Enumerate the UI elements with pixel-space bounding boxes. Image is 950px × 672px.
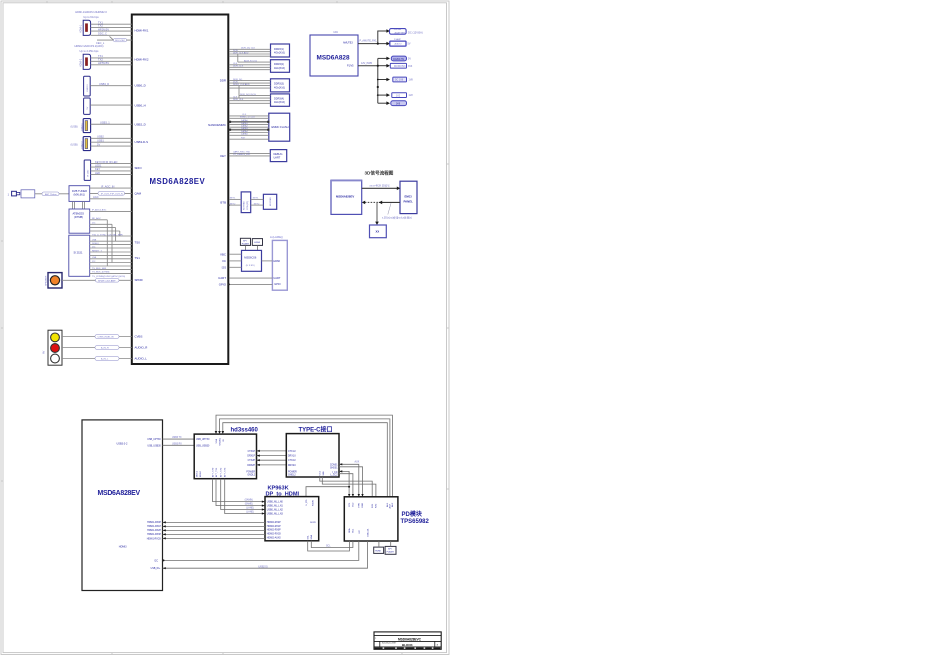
- svg-text:DRX2U: DRX2U: [288, 465, 296, 467]
- svg-text:I2C: I2C: [92, 261, 96, 263]
- svg-text:CC1: CC1: [349, 502, 351, 507]
- svg-text:DRX1P: DRX1P: [247, 456, 255, 458]
- svg-text:USB3 RX: USB3 RX: [172, 443, 182, 445]
- note title block: [374, 632, 441, 649]
- svg-text:P_AMUTE_RXL: P_AMUTE_RXL: [360, 40, 378, 43]
- wire J1 to U1 pins: [91, 24, 132, 40]
- svg-text:MSD6A828EV: MSD6A828EV: [150, 177, 206, 186]
- svg-text:DDR3(3): DDR3(3): [274, 83, 284, 86]
- component FB2 panel box: [400, 181, 417, 213]
- svg-text:GNDBL: GNDBL: [220, 437, 222, 445]
- svg-text:RF_AGC: RF_AGC: [92, 217, 101, 220]
- component U13 SPI FLASH small: [240, 238, 250, 245]
- wire U23 I2C bus to U24: [308, 541, 353, 551]
- svg-text:HDMI1-RX0P: HDMI1-RX0P: [147, 522, 161, 524]
- svg-text:TS0_D_SYNC_CLK_VAL_ERR: TS0_D_SYNC_CLK_VAL_ERR: [92, 233, 123, 236]
- svg-text:EMMC_D_CLK: EMMC_D_CLK: [240, 117, 255, 119]
- svg-text:3V3: 3V3: [408, 65, 413, 68]
- wire U21 bottom to U24 elbows: [213, 479, 262, 514]
- svg-text:HDMI1-RX3P: HDMI1-RX3P: [147, 534, 161, 536]
- U24 misc pin names: [306, 499, 317, 539]
- node flow note leader line: [388, 203, 391, 214]
- svg-text:MSD6A828: MSD6A828: [317, 55, 350, 62]
- svg-text:DC 1V8: DC 1V8: [395, 80, 404, 82]
- svg-text:SDA: SDA: [310, 534, 313, 539]
- svg-text:P1/V5: P1/V5: [347, 65, 354, 68]
- svg-text:HDMI-2: HDMI-2: [80, 58, 83, 67]
- wire J9 CVBS to U1: [62, 337, 132, 359]
- svg-text:12V-5A: 12V-5A: [394, 28, 402, 31]
- wire U3 bus to U1: [90, 211, 132, 266]
- node rail junction dots: [377, 65, 379, 96]
- svg-text:I2C: I2C: [334, 30, 340, 34]
- svg-text:hd3ss460: hd3ss460: [231, 428, 259, 434]
- wire U1 to U5 bus: [229, 49, 271, 62]
- wire U1 to U7 bus: [229, 81, 271, 99]
- svg-text:USB_ID+: USB_ID+: [151, 568, 161, 570]
- svg-text:LNB: LNB: [92, 257, 97, 259]
- svg-text:(MXL661): (MXL661): [74, 192, 86, 196]
- component PSU4 3V3 box: [390, 63, 413, 68]
- svg-text:KP963K: KP963K: [268, 485, 289, 491]
- node U22 right arrows: [339, 463, 342, 472]
- svg-text:DDR_CLK: DDR_CLK: [233, 66, 244, 68]
- component PSU7 0V9 box: [391, 101, 407, 106]
- wire RF to tuner: [35, 193, 69, 195]
- svg-text:HDMI2-AUX0: HDMI2-AUX0: [267, 537, 282, 540]
- wire U22 bottom SBU to U23: [320, 477, 376, 497]
- svg-text:TS_BUS_(DTMB): TS_BUS_(DTMB): [92, 272, 110, 274]
- svg-text:CON(7P): CON(7P): [247, 201, 249, 210]
- svg-text:GNDL2: GNDL2: [288, 475, 296, 477]
- svg-text:IIC: IIC: [222, 259, 226, 263]
- wire U17 AMUTE net: [358, 31, 387, 44]
- svg-text:POWER: POWER: [246, 471, 255, 473]
- note HDMI2 description text: [74, 44, 103, 53]
- node AUDIO_R net label box: [95, 346, 119, 350]
- wire U4 bus to U1: [90, 236, 132, 273]
- svg-text:TS_(DTMB)(DVB/C)(ATSC)(S2/S): TS_(DTMB)(DVB/C)(ATSC)(S2/S): [92, 275, 125, 278]
- svg-text:DC (12V/5A): DC (12V/5A): [408, 31, 423, 35]
- svg-text:SPDIF: SPDIF: [135, 278, 144, 282]
- svg-text:DDC1: DDC1: [197, 470, 199, 477]
- node tuner bus wire labels: [92, 209, 125, 278]
- wire U23 USB_D to U20 long: [163, 541, 368, 568]
- node CC1 junction dot: [348, 486, 350, 488]
- node U7 wire labels: [233, 79, 250, 86]
- svg-text:5V: 5V: [408, 42, 411, 45]
- svg-text:DATA1: DATA1: [241, 122, 249, 125]
- svg-text:FLASH: FLASH: [387, 551, 394, 554]
- svg-text:A_IN_R: A_IN_R: [101, 347, 109, 350]
- node U24 lane labels: [245, 499, 254, 514]
- svg-text:EMCI: EMCI: [405, 194, 412, 198]
- component U23 TPS65982 PD module: [344, 497, 429, 541]
- svg-text:GHD01: GHD01: [330, 467, 338, 469]
- component U22 TYPE-C port: [286, 426, 339, 477]
- node AMUTE junction dot: [377, 43, 379, 45]
- svg-text:SBU: SBU: [323, 471, 325, 476]
- svg-text:SomeName-MST: SomeName-MST: [382, 643, 397, 645]
- svg-text:DC/DC3V3: DC/DC3V3: [394, 66, 406, 68]
- component U2 DVB TUNER MXL661: [69, 186, 90, 202]
- svg-text:DDC_C: DDC_C: [98, 32, 107, 36]
- svg-text:SPI: SPI: [243, 241, 247, 243]
- svg-text:DRX2P: DRX2P: [247, 465, 255, 467]
- svg-text:USB0_ML_LN3: USB0_ML_LN3: [267, 513, 284, 515]
- svg-text:DDR3(2): DDR3(2): [274, 63, 284, 66]
- op-amp U1 MSD6A828EV main chip body: [132, 15, 229, 365]
- svg-text:CTX1U: CTX1U: [288, 451, 296, 453]
- svg-text:USB2.0: USB2.0: [81, 141, 83, 149]
- svg-text:SDA: SDA: [348, 528, 351, 533]
- svg-text:USB0_H: USB0_H: [135, 103, 146, 107]
- node arrow into PSU3: [386, 57, 390, 61]
- svg-text:(SAME): (SAME): [245, 503, 253, 506]
- svg-text:I2C: I2C: [359, 530, 361, 534]
- connector J7 IR-KEY header: [84, 160, 90, 180]
- node CVBS net label box: [95, 335, 119, 339]
- node U12 wire labels: [253, 198, 260, 206]
- svg-text:UART: UART: [273, 276, 280, 280]
- svg-text:TS_BUS_SER: TS_BUS_SER: [92, 268, 107, 270]
- wire U1 to U9 bus: [229, 116, 269, 139]
- svg-text:KEY1: KEY1: [253, 198, 259, 200]
- svg-text:VCA: VCA: [215, 438, 218, 443]
- U22 right pin names: [330, 464, 338, 476]
- svg-text:(USB2 D): (USB2 D): [258, 566, 268, 568]
- wire U1 to U6 bus: [229, 62, 271, 70]
- node U9 wire labels: [240, 114, 255, 139]
- svg-text:5V: 5V: [408, 58, 411, 61]
- svg-text:AUX: AUX: [355, 460, 360, 463]
- svg-text:KEY1: KEY1: [230, 198, 236, 200]
- svg-text:HDMI-RX2: HDMI-RX2: [135, 58, 149, 62]
- node U11 junction dot: [228, 204, 230, 206]
- wire U1 to U9 thick data buses: [229, 122, 268, 130]
- node U11 wire labels: [230, 198, 236, 206]
- svg-text:(DTMB): (DTMB): [74, 215, 83, 219]
- svg-text:HDMI: HDMI: [273, 259, 280, 263]
- svg-text:SDIO: SDIO: [135, 166, 143, 170]
- component PSU2 5V regulator box: [390, 38, 411, 46]
- component U7 DDR3 chip 3: [271, 79, 290, 92]
- component balun box: [21, 190, 35, 198]
- svg-text:AGC: AGC: [93, 195, 99, 199]
- node U5 wire labels: [233, 48, 256, 55]
- wire U22 HPD pair to U23 top: [339, 464, 363, 497]
- svg-text:HDMI3: HDMI3: [119, 546, 127, 549]
- svg-text:BLOCK: BLOCK: [402, 643, 413, 647]
- connector J5 USB3 yellow: [71, 119, 91, 133]
- svg-text:KEY0 IR IR IR LED: KEY0 IR IR IR LED: [95, 160, 117, 164]
- svg-text:FLASH: FLASH: [242, 242, 249, 245]
- component U21 hd3ss460 mux: [194, 428, 258, 479]
- svg-text:GNDL2: GNDL2: [247, 475, 255, 477]
- svg-text:MSD6A828EV: MSD6A828EV: [336, 195, 354, 199]
- svg-text:I2C: I2C: [92, 223, 96, 225]
- svg-text:NAND/EMMC: NAND/EMMC: [208, 123, 226, 127]
- wire U23 to U26 stub: [390, 541, 392, 546]
- svg-text:RESET_T: RESET_T: [92, 250, 103, 252]
- svg-text:5V: 5V: [97, 142, 100, 146]
- U1 right pin labels: [208, 78, 227, 286]
- svg-text:GPIO: GPIO: [274, 282, 281, 286]
- node IF net label box: [98, 192, 125, 196]
- svg-text:SPDIF_OUT AMP: SPDIF_OUT AMP: [98, 279, 116, 282]
- svg-text:1V8: 1V8: [409, 79, 414, 82]
- component PSU1 adapter box: [390, 28, 423, 35]
- svg-text:(USB): (USB): [71, 124, 78, 128]
- svg-text:USB3.1: USB3.1: [81, 123, 83, 131]
- component U6 DDR3 chip 2: [271, 60, 290, 73]
- svg-text:DDR3(4): DDR3(4): [274, 97, 284, 100]
- svg-text:(SAMN): (SAMN): [245, 499, 253, 502]
- node U21 lane arrows: [257, 450, 260, 466]
- wire U20 to U24 HDMI lanes: [163, 522, 266, 538]
- node arrow into PSU4: [386, 64, 390, 68]
- svg-text:USB0_D: USB0_D: [135, 84, 146, 88]
- component U14 HDMI small box: [252, 239, 262, 246]
- wire U1 to U10: [229, 153, 270, 156]
- svg-text:SCL: SCL: [326, 546, 331, 548]
- svg-text:DDR_CLK: DDR_CLK: [233, 99, 244, 101]
- svg-text:USB1: USB1: [97, 139, 104, 143]
- svg-text:ATBM253: ATBM253: [73, 212, 85, 216]
- svg-text:DVB TUNER: DVB TUNER: [72, 189, 87, 193]
- svg-text:UT_DEBUG_RX1: UT_DEBUG_RX1: [233, 154, 251, 156]
- U22 bottom pin names vertical: [320, 470, 326, 475]
- connector J3 USB port A: [84, 76, 91, 96]
- svg-text:P-AMP: P-AMP: [394, 38, 401, 41]
- component U11 BTB connector: [241, 192, 251, 213]
- svg-text:I2C: I2C: [92, 246, 96, 248]
- node J6 wire labels: [97, 135, 104, 147]
- svg-text:RST: RST: [241, 138, 246, 140]
- svg-text:1V2: 1V2: [396, 95, 401, 97]
- svg-text:USB3.0: USB3.0: [87, 84, 89, 92]
- svg-text:CVBS_IN AV_IN: CVBS_IN AV_IN: [98, 336, 114, 339]
- U1 left pin labels: [135, 29, 149, 361]
- node U24 entry arrows: [262, 501, 265, 515]
- svg-text:I2S: I2S: [222, 266, 226, 270]
- svg-text:DC/DC 5V: DC/DC 5V: [393, 59, 404, 61]
- svg-text:KEY2: KEY2: [254, 203, 260, 205]
- svg-text:USB_D1: USB_D1: [367, 528, 369, 537]
- component U10 DEBUG UART: [270, 150, 286, 162]
- node I2C junction dot: [163, 559, 165, 561]
- connector J1 HDMI-RX1: [80, 20, 91, 35]
- wire U17 P1V5 rail: [358, 58, 387, 103]
- svg-text:DEBUG: DEBUG: [274, 153, 283, 156]
- wire U1 to U15: [229, 254, 242, 267]
- svg-text:USB_UPTX0: USB_UPTX0: [147, 439, 161, 441]
- wire U1 to U8 bus: [229, 96, 271, 104]
- component PSU3 5V rail box: [391, 56, 411, 61]
- svg-text:x,3D(xLxx)使用xx大x处理(x): x,3D(xLxx)使用xx大x处理(x): [382, 216, 412, 220]
- svg-text:DDR3(1): DDR3(1): [274, 48, 284, 51]
- svg-text:HPD: HPD: [358, 502, 360, 507]
- svg-text:(LANE): (LANE): [246, 507, 254, 510]
- wire J6 to U1: [91, 138, 132, 146]
- svg-text:IF_AGC2 AGC: IF_AGC2 AGC: [92, 209, 107, 212]
- wire FB2 down to FB3: [375, 202, 379, 225]
- wire U21 to U22 lane pairs: [257, 451, 287, 465]
- svg-text:I2C: I2C: [154, 560, 158, 562]
- wire U20 to U21 USB3: [163, 439, 195, 445]
- svg-text:4Gb(X16): 4Gb(X16): [274, 67, 285, 70]
- svg-text:HDMI2.1/HDCP2.2(ARC): HDMI2.1/HDCP2.2(ARC): [74, 44, 103, 48]
- component U24 KP963K converter: [265, 485, 319, 541]
- svg-text:AV: AV: [42, 350, 46, 354]
- svg-text:DISEQ: DISEQ: [92, 243, 99, 245]
- component U12 keypad board: [263, 194, 276, 209]
- component U3 ATBM253 demod: [69, 209, 90, 233]
- svg-text:QAM: QAM: [135, 192, 142, 196]
- component PSU5 1V8 box: [393, 77, 414, 82]
- svg-text:MSD6A828EVC: MSD6A828EVC: [398, 637, 422, 641]
- svg-text:DDR: DDR: [220, 78, 226, 82]
- svg-text:USB3_D: USB3_D: [99, 82, 109, 86]
- U21 top pin names vertical: [215, 437, 225, 445]
- svg-text:USB2_D: USB2_D: [135, 122, 146, 126]
- svg-text:DATA0: DATA0: [241, 119, 249, 122]
- svg-text:KEY: KEY: [220, 154, 226, 158]
- connector J4 USB port B: [84, 98, 91, 114]
- svg-text:USB3 TX: USB3 TX: [172, 437, 182, 439]
- component FB1 flow source box: [331, 180, 362, 214]
- component U26 SPI FLASH small: [385, 546, 396, 554]
- svg-text:AUX: AUX: [389, 503, 392, 508]
- svg-text:HP.5V/5V: HP.5V/5V: [98, 27, 109, 31]
- svg-text:GPIO: GPIO: [219, 283, 227, 287]
- svg-text:Up to 2.25G bps: Up to 2.25G bps: [80, 49, 100, 53]
- svg-text:DDC-CEC: DDC-CEC: [115, 40, 126, 42]
- svg-text:DATA3: DATA3: [241, 127, 249, 130]
- node arrow into PSU2: [386, 42, 390, 46]
- svg-text:DBG: DBG: [362, 502, 364, 507]
- svg-text:TX2: TX2: [98, 58, 103, 62]
- svg-text:KEYPAD: KEYPAD: [269, 197, 272, 206]
- wire U23 to U25 stub: [378, 541, 380, 547]
- svg-text:UART: UART: [274, 157, 281, 160]
- svg-text:HDMI: HDMI: [254, 242, 260, 244]
- node arrow into PSU6: [386, 93, 390, 97]
- svg-text:Up to 6G bps: Up to 6G bps: [83, 15, 99, 19]
- svg-text:1: 1: [8, 193, 10, 197]
- svg-text:USB_USB30: USB_USB30: [196, 445, 210, 447]
- wire U1 to U16 GPIO: [229, 283, 273, 285]
- wire J7 to U1: [91, 164, 132, 175]
- svg-text:HDMI2-RX2P: HDMI2-RX2P: [267, 522, 281, 524]
- svg-text:HDMI2-RXCK: HDMI2-RXCK: [267, 534, 282, 536]
- svg-text:(U X RX): (U X RX): [246, 265, 255, 267]
- svg-text:1V2: 1V2: [409, 94, 414, 97]
- svg-text:USB0_ML_LN0: USB0_ML_LN0: [267, 502, 284, 504]
- U23 bottom pin names vertical: [348, 528, 369, 537]
- op-amp U20 MSD6A828EV bottom chip: [82, 420, 163, 591]
- svg-text:DDR1_CLK ADD: DDR1_CLK ADD: [233, 83, 250, 86]
- component U17 MSD6A828 power controller: [310, 35, 358, 76]
- svg-text:HDMI1-RX1P: HDMI1-RX1P: [147, 526, 161, 528]
- component U8 DDR3 chip 4: [271, 94, 290, 106]
- svg-text:CTX2U: CTX2U: [288, 460, 296, 462]
- svg-text:DATA2: DATA2: [241, 125, 249, 128]
- svg-text:AUDIO: AUDIO: [395, 43, 402, 46]
- svg-text:HDMI-1: HDMI-1: [80, 24, 83, 33]
- node USB_D entry arrow: [163, 567, 166, 569]
- note HDMI1 description text: [75, 10, 107, 19]
- U21 right pin names: [246, 451, 255, 477]
- svg-text:HDMI-RX1: HDMI-RX1: [135, 29, 149, 33]
- node AUDIO_L net label box: [95, 357, 119, 361]
- svg-text:LED1: LED1: [95, 163, 102, 167]
- wire U2 to U3 vertical: [73, 201, 85, 209]
- svg-text:TX2: TX2: [98, 24, 103, 28]
- component U25 HDMI conn small: [374, 547, 384, 553]
- node U8 wire labels: [233, 94, 256, 101]
- svg-text:ATT_TX2: ATT_TX2: [220, 467, 223, 477]
- component U16 LCD panel box: [270, 235, 287, 290]
- svg-text:HDMI1-RX2P: HDMI1-RX2P: [147, 530, 161, 532]
- U22 left pin names: [288, 451, 297, 477]
- wire LS1 to U1 SPDIF: [62, 279, 132, 281]
- svg-text:SPI: SPI: [388, 549, 392, 551]
- svg-text:EMMC FLASH: EMMC FLASH: [272, 125, 289, 129]
- wire U13 U14 stubs to U15: [246, 245, 258, 250]
- svg-text:BTB: BTB: [220, 200, 226, 204]
- wire U1 to U11: [229, 199, 241, 205]
- node HDMI2 wire labels: [98, 54, 109, 65]
- component U5 DDR3 chip 1: [271, 44, 290, 57]
- svg-text:SPEAKER: SPEAKER: [44, 275, 47, 286]
- node U20 HDMI entry arrows: [163, 521, 166, 539]
- node U23 top entry arrows: [348, 494, 364, 497]
- svg-text:USB_USB30: USB_USB30: [147, 445, 161, 447]
- component LS1 speaker: [44, 273, 62, 288]
- svg-text:HDMI-1/HDCP2.2/HDMI2.0: HDMI-1/HDCP2.2/HDMI2.0: [75, 10, 107, 14]
- svg-text:12V_PWR: 12V_PWR: [361, 62, 372, 65]
- svg-text:HDMI: HDMI: [375, 551, 381, 553]
- svg-text:UART: UART: [218, 276, 226, 280]
- svg-text:TYPE-C接口: TYPE-C接口: [299, 426, 333, 434]
- wire J3 to U1: [90, 85, 132, 87]
- node HDMI1 wire labels: [96, 21, 109, 45]
- node DDC net label box: [114, 38, 127, 42]
- svg-text:TS1: TS1: [135, 256, 141, 260]
- connector J6 USB2 yellow: [71, 137, 91, 151]
- svg-text:USB3_1: USB3_1: [100, 120, 110, 124]
- svg-text:AUDLN_DQ1: AUDLN_DQ1: [244, 59, 258, 62]
- note title block revision strip: [375, 648, 441, 650]
- svg-text:3D信号流程图: 3D信号流程图: [365, 170, 394, 177]
- svg-text:KEYPAD: KEYPAD: [243, 201, 246, 210]
- svg-text:USB_UPTX0: USB_UPTX0: [196, 439, 210, 441]
- wire U11 to U12: [251, 199, 264, 205]
- wire U1 to U16 UART: [229, 277, 273, 279]
- svg-text:TS0: TS0: [135, 241, 141, 245]
- component FB3 small box: [370, 225, 387, 238]
- svg-text:USB0_ML_LN2: USB0_ML_LN2: [267, 509, 284, 511]
- svg-text:HDMI1-RXCK: HDMI1-RXCK: [147, 538, 162, 540]
- svg-text:DDPF: DDPF: [310, 522, 317, 524]
- svg-text:xx or 4K2K 3D信号: xx or 4K2K 3D信号: [370, 184, 391, 188]
- svg-text:ADAPTER: ADAPTER: [395, 31, 406, 34]
- svg-text:ATT_TX0: ATT_TX0: [211, 467, 214, 477]
- node arrow into PSU1: [386, 29, 390, 33]
- svg-text:USB0_ML_LN1: USB0_ML_LN1: [267, 506, 284, 508]
- svg-text:CTX2P: CTX2P: [248, 460, 256, 462]
